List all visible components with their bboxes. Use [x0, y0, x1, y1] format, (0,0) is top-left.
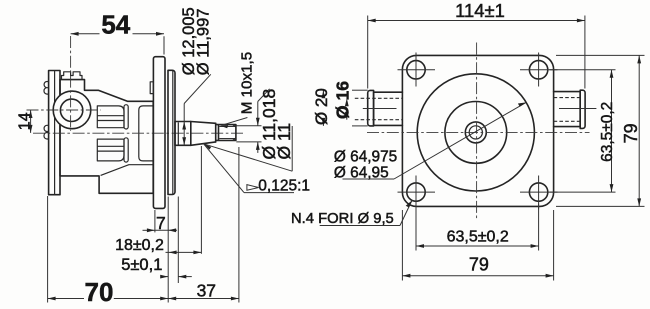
side port bore circle — [60, 99, 82, 121]
dimension 5±0,1 — [121, 197, 192, 284]
hub — [168, 70, 175, 194]
svg-text:63,5±0,2: 63,5±0,2 — [599, 102, 616, 162]
left port centerline — [363, 108, 397, 110]
bolt hole TL — [407, 61, 425, 79]
port horizontal centerline — [27, 109, 102, 111]
svg-text:79: 79 — [469, 255, 489, 275]
dimension 14 — [16, 110, 33, 133]
bolt hole TR — [529, 61, 547, 79]
svg-text:7: 7 — [156, 213, 166, 233]
dimension 70 — [48, 196, 169, 307]
bolt hole BL — [407, 183, 425, 201]
bearing boss circle — [417, 74, 534, 191]
label N.4 FORI D9,5 — [291, 200, 412, 226]
svg-text:Ø 20: Ø 20 — [312, 88, 331, 125]
right port collar — [580, 90, 585, 128]
dimension 7 — [143, 210, 178, 233]
shaft hole outer — [465, 122, 486, 143]
dimension D11,018 / D11 — [204, 89, 295, 171]
dimension 79 bottom — [402, 210, 553, 281]
svg-text:Ø 11,997: Ø 11,997 — [195, 9, 213, 76]
spigot circle — [445, 101, 507, 163]
flange vertical centerline — [476, 43, 478, 221]
threaded end M10 — [216, 125, 236, 141]
svg-text:Ø 16: Ø 16 — [332, 81, 352, 119]
left port bore hidden lines — [355, 97, 402, 99]
shaft shoulder line — [177, 122, 179, 144]
svg-text:N.4 FORI Ø 9,5: N.4 FORI Ø 9,5 — [291, 211, 394, 227]
dimension D20 — [312, 88, 331, 126]
bolt hole BR — [529, 183, 547, 201]
dimension 63,5±0,2 right — [550, 70, 617, 192]
svg-text:Ø 11: Ø 11 — [274, 123, 294, 160]
svg-text:37: 37 — [197, 280, 216, 300]
lower rib — [97, 139, 124, 161]
dimension 18±0,2 — [115, 146, 201, 254]
right port bore hidden lines — [554, 97, 581, 99]
dimension 79 right — [556, 55, 645, 206]
dimension D12.005/11.997 labels — [180, 7, 213, 145]
svg-text:79: 79 — [621, 123, 641, 143]
port vertical centerline — [70, 36, 72, 131]
flange square — [402, 55, 553, 206]
svg-text:0,125:1: 0,125:1 — [258, 177, 310, 194]
svg-text:18±0,2: 18±0,2 — [115, 237, 164, 254]
dimension D16 — [332, 81, 352, 120]
upper rib post — [124, 105, 128, 129]
mounting flange disc — [153, 57, 165, 209]
shaft taper — [191, 122, 216, 146]
flange horizontal centerline — [367, 131, 590, 133]
label D64,975 / D64,95 — [334, 102, 526, 181]
label M 10x1,5 — [220, 52, 255, 128]
right port centerline — [559, 108, 596, 110]
left port pipe — [374, 92, 403, 125]
cover plates — [49, 71, 60, 195]
body outline — [60, 80, 153, 194]
svg-text:5±0,1: 5±0,1 — [121, 256, 162, 274]
dimension 114±1 — [368, 0, 585, 88]
disc left bump — [150, 82, 153, 94]
svg-text:M 10x1,5: M 10x1,5 — [238, 52, 255, 114]
shaft hole inner — [469, 126, 482, 139]
svg-text:Ø 64,975: Ø 64,975 — [334, 149, 397, 166]
svg-text:54: 54 — [101, 10, 130, 40]
shaft centerline — [33, 132, 245, 134]
body inner edge chamfer — [101, 165, 154, 176]
left port OD extension stubs — [352, 89, 368, 91]
left port collar — [368, 90, 374, 126]
dimension 63,5±0,2 bottom — [416, 204, 539, 251]
dimension 37 — [168, 147, 239, 303]
shaft taper end face — [215, 123, 217, 142]
svg-text:70: 70 — [85, 277, 114, 307]
shaft cylinder — [175, 122, 191, 146]
svg-text:14: 14 — [16, 112, 33, 130]
right port pipe — [554, 92, 581, 127]
taper label 0,125:1 — [204, 144, 310, 195]
clip lower — [44, 125, 49, 139]
dimension 54 — [71, 10, 164, 55]
top screw head — [62, 72, 83, 80]
lower rib post — [124, 138, 128, 162]
svg-text:114±1: 114±1 — [455, 0, 505, 21]
upper rib — [97, 106, 124, 128]
side port boss outer circle — [53, 91, 91, 129]
clip upper — [44, 82, 49, 95]
bearing hub bar — [139, 106, 154, 161]
svg-text:63,5±0,2: 63,5±0,2 — [447, 229, 509, 246]
